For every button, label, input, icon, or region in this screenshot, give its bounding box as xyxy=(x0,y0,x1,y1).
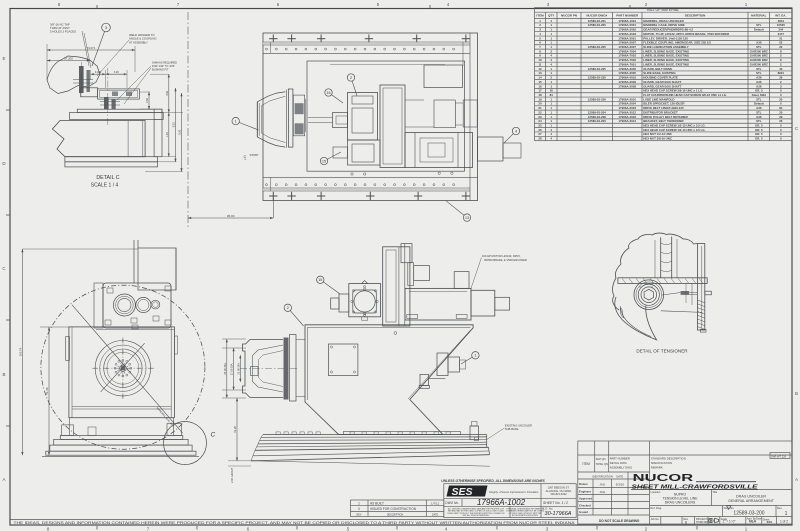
svg-text:1 of 2: 1 of 2 xyxy=(780,520,788,524)
svg-text:Dwg. No.: Dwg. No. xyxy=(724,506,735,510)
svg-text:AT ASSEMBLY: AT ASSEMBLY xyxy=(129,40,148,44)
svg-text:JAG: JAG xyxy=(599,490,606,494)
svg-text:25.00 DIA.: 25.00 DIA. xyxy=(223,362,227,375)
svg-text:IDENTIFICATION: IDENTIFICATION xyxy=(592,475,613,479)
svg-text:GENERAL ARRANGEMENT: GENERAL ARRANGEMENT xyxy=(728,499,775,503)
svg-text:TWSH QN: TWSH QN xyxy=(596,462,608,466)
svg-text:Job No.: Job No. xyxy=(651,517,660,521)
svg-text:NUCOR DWG#: NUCOR DWG# xyxy=(586,14,607,18)
svg-text:28: 28 xyxy=(538,137,542,141)
svg-text:12589-03-226: 12589-03-226 xyxy=(588,97,606,101)
svg-text:AS BUILT: AS BUILT xyxy=(370,502,384,506)
svg-text:RD500 BRAKE, & V500 ENCODER: RD500 BRAKE, & V500 ENCODER xyxy=(484,258,527,262)
svg-text:51.38: 51.38 xyxy=(45,387,49,394)
svg-text:BILL OF MATERIAL: BILL OF MATERIAL xyxy=(647,8,679,12)
svg-text:ISSUED FOR CONSTRUCTION: ISSUED FOR CONSTRUCTION xyxy=(370,507,417,511)
svg-text:5.00: 5.00 xyxy=(173,122,176,127)
svg-text:12589-03-225: 12589-03-225 xyxy=(588,67,606,71)
svg-text:SPECIFICATION: SPECIFICATION xyxy=(651,461,672,465)
svg-text:103.74: 103.74 xyxy=(18,347,22,356)
svg-text:12589-03-200: 12589-03-200 xyxy=(588,23,606,27)
svg-text:Default: Default xyxy=(754,28,764,32)
svg-text:15: 15 xyxy=(322,159,326,163)
svg-text:DATE: DATE xyxy=(616,475,623,479)
svg-text:2.00 GROUT: 2.00 GROUT xyxy=(230,467,234,483)
svg-text:Engineer: Engineer xyxy=(579,490,592,494)
svg-text:BUSHING FIT: BUSHING FIT xyxy=(152,68,169,72)
svg-text:1/7/11: 1/7/11 xyxy=(431,502,439,506)
svg-text:27.00 DIA.: 27.00 DIA. xyxy=(230,363,234,376)
svg-text:16: 16 xyxy=(326,91,330,95)
svg-text:THE IDEAS, DESIGNS AND INFORMA: THE IDEAS, DESIGNS AND INFORMATION CONTA… xyxy=(14,520,576,525)
svg-text:SCALE 1 / 4: SCALE 1 / 4 xyxy=(91,183,119,189)
svg-text:3/3/10: 3/3/10 xyxy=(616,483,625,487)
svg-text:EXISTING UNCOILER: EXISTING UNCOILER xyxy=(505,424,532,428)
svg-text:SHEET No. 1 / 2: SHEET No. 1 / 2 xyxy=(543,501,568,505)
svg-text:DATE: DATE xyxy=(432,513,439,516)
svg-text:Title: Title xyxy=(712,490,717,494)
svg-text:17966A-1002: 17966A-1002 xyxy=(477,498,526,507)
svg-text:3.00: 3.00 xyxy=(114,71,119,74)
svg-text:FOR .010” TO .015”: FOR .010” TO .015” xyxy=(152,64,175,68)
svg-text:15: 15 xyxy=(318,278,322,282)
svg-text:DESCRIPTION: DESCRIPTION xyxy=(387,513,404,516)
svg-text:REV: REV xyxy=(357,513,362,516)
svg-text:REMARK: REMARK xyxy=(651,466,663,470)
svg-text:Approved: Approved xyxy=(579,497,592,501)
svg-text:1: 1 xyxy=(474,354,476,358)
svg-text:1.25: 1.25 xyxy=(166,132,169,137)
svg-text:Drawn: Drawn xyxy=(579,482,588,486)
svg-text:1” = 1’-0”: 1” = 1’-0” xyxy=(723,520,736,524)
svg-text:67.200: 67.200 xyxy=(64,56,73,60)
svg-text:S.O. No.: S.O. No. xyxy=(543,507,554,511)
svg-text:DRAG UNCOILER: DRAG UNCOILER xyxy=(736,495,766,499)
svg-text:21.00 DIA.: 21.00 DIA. xyxy=(236,362,240,375)
svg-text:SUB-BASE: SUB-BASE xyxy=(505,427,519,431)
svg-text:2.50: 2.50 xyxy=(146,98,149,103)
svg-text:XXX: XXX xyxy=(767,520,773,524)
svg-text:SES: SES xyxy=(451,487,472,498)
svg-text:JAG: JAG xyxy=(599,483,606,487)
svg-text:B: B xyxy=(795,391,798,396)
svg-text:GR. 5: GR. 5 xyxy=(755,137,763,141)
svg-text:12589-03-205: 12589-03-205 xyxy=(588,45,606,49)
svg-text:DESCRIPTION: DESCRIPTION xyxy=(685,14,706,18)
svg-text:100 HP MOTOR L2013Z, DPFV,: 100 HP MOTOR L2013Z, DPFV, xyxy=(482,254,521,258)
svg-text:SHP WT 226: SHP WT 226 xyxy=(771,454,787,458)
svg-text:HEX NUT 3/8-16 UNC: HEX NUT 3/8-16 UNC xyxy=(643,137,673,141)
svg-text:STRIP: STRIP xyxy=(250,153,259,157)
svg-text:13: 13 xyxy=(465,216,469,220)
svg-text:Ref. Dwg.: Ref. Dwg. xyxy=(651,506,663,510)
svg-text:17966A-3013: 17966A-3013 xyxy=(618,119,636,123)
svg-text:45.00: 45.00 xyxy=(227,214,235,218)
svg-text:WT. EA.: WT. EA. xyxy=(775,14,786,18)
svg-text:1: 1 xyxy=(358,502,360,506)
svg-text:0.400: 0.400 xyxy=(95,71,102,74)
svg-text:DWG No.: DWG No. xyxy=(445,501,459,505)
svg-text:ASSEMBLY DWG: ASSEMBLY DWG xyxy=(610,466,632,470)
svg-text:QTY: QTY xyxy=(548,14,554,18)
svg-text:B: B xyxy=(2,372,5,377)
svg-text:30-17966A: 30-17966A xyxy=(545,511,572,517)
svg-text:12589-03-230: 12589-03-230 xyxy=(588,76,606,80)
svg-text:51.26: 51.26 xyxy=(233,426,237,433)
svg-text:12589-03-200: 12589-03-200 xyxy=(733,511,764,517)
svg-text:STANDARD DESCRIPTION: STANDARD DESCRIPTION xyxy=(651,457,686,461)
svg-text:Location: Location xyxy=(651,490,661,494)
svg-text:DETAIL OF TENSIONER: DETAIL OF TENSIONER xyxy=(636,348,688,353)
svg-text:2: 2 xyxy=(287,306,289,310)
svg-text:DO NOT SCALE DRAWING: DO NOT SCALE DRAWING xyxy=(599,519,640,523)
svg-text:NUCOR PN: NUCOR PN xyxy=(561,14,577,18)
svg-text:A: A xyxy=(795,477,798,482)
svg-text:MATERIAL: MATERIAL xyxy=(751,14,766,18)
svg-text:Issued: Issued xyxy=(579,510,588,514)
svg-text:NUCOR: NUCOR xyxy=(633,472,694,484)
svg-text:17966A-2008: 17966A-2008 xyxy=(618,84,636,88)
svg-text:2: 2 xyxy=(350,76,352,80)
svg-text:PART NUMBER: PART NUMBER xyxy=(616,14,639,18)
svg-text:330-821-3322: 330-821-3322 xyxy=(550,492,567,496)
svg-text:3: 3 xyxy=(105,26,107,30)
svg-text:DETAIL DWG: DETAIL DWG xyxy=(610,461,627,465)
svg-text:1: 1 xyxy=(785,511,788,517)
svg-text:4: 4 xyxy=(515,129,517,133)
svg-text:SHP QN: SHP QN xyxy=(596,457,606,461)
svg-text:12589-03-203: 12589-03-203 xyxy=(588,119,606,123)
svg-text:74.071: 74.071 xyxy=(87,46,96,50)
svg-text:ITEM: ITEM xyxy=(582,462,590,466)
svg-text:SHIM AS REQUIRED: SHIM AS REQUIRED xyxy=(152,61,177,65)
svg-text:1: 1 xyxy=(235,119,237,123)
svg-text:C: C xyxy=(211,432,216,439)
svg-text:E: E xyxy=(2,56,5,61)
svg-text:3.50: 3.50 xyxy=(166,90,169,95)
svg-text:8.50: 8.50 xyxy=(179,129,182,134)
svg-text:MLH: MLH xyxy=(749,520,757,524)
svg-text:Rev.: Rev. xyxy=(777,506,782,510)
svg-text:A: A xyxy=(2,477,5,482)
svg-text:DETAIL C: DETAIL C xyxy=(96,175,119,181)
svg-text:UNLESS OTHERWISE SPECIFIED, AL: UNLESS OTHERWISE SPECIFIED, ALL DIMENSIO… xyxy=(441,479,545,483)
svg-text:SES. ALL RIGHTS RESERVED.: SES. ALL RIGHTS RESERVED. xyxy=(462,514,490,517)
svg-text:DRAG UNCOILERS: DRAG UNCOILERS xyxy=(665,501,696,505)
svg-text:0: 0 xyxy=(358,507,360,511)
svg-text:PART NUMBER: PART NUMBER xyxy=(610,457,630,461)
svg-text:ITEM: ITEM xyxy=(536,14,544,18)
svg-text:5 HOLES 2 PLACES: 5 HOLES 2 PLACES xyxy=(50,30,76,34)
svg-text:AUTHORIZATION FROM SES: AUTHORIZATION FROM SES xyxy=(512,514,538,517)
svg-text:Checked: Checked xyxy=(579,504,591,508)
svg-text:Integrity • Process Improvemen: Integrity • Process Improvement • Innova… xyxy=(489,491,539,494)
